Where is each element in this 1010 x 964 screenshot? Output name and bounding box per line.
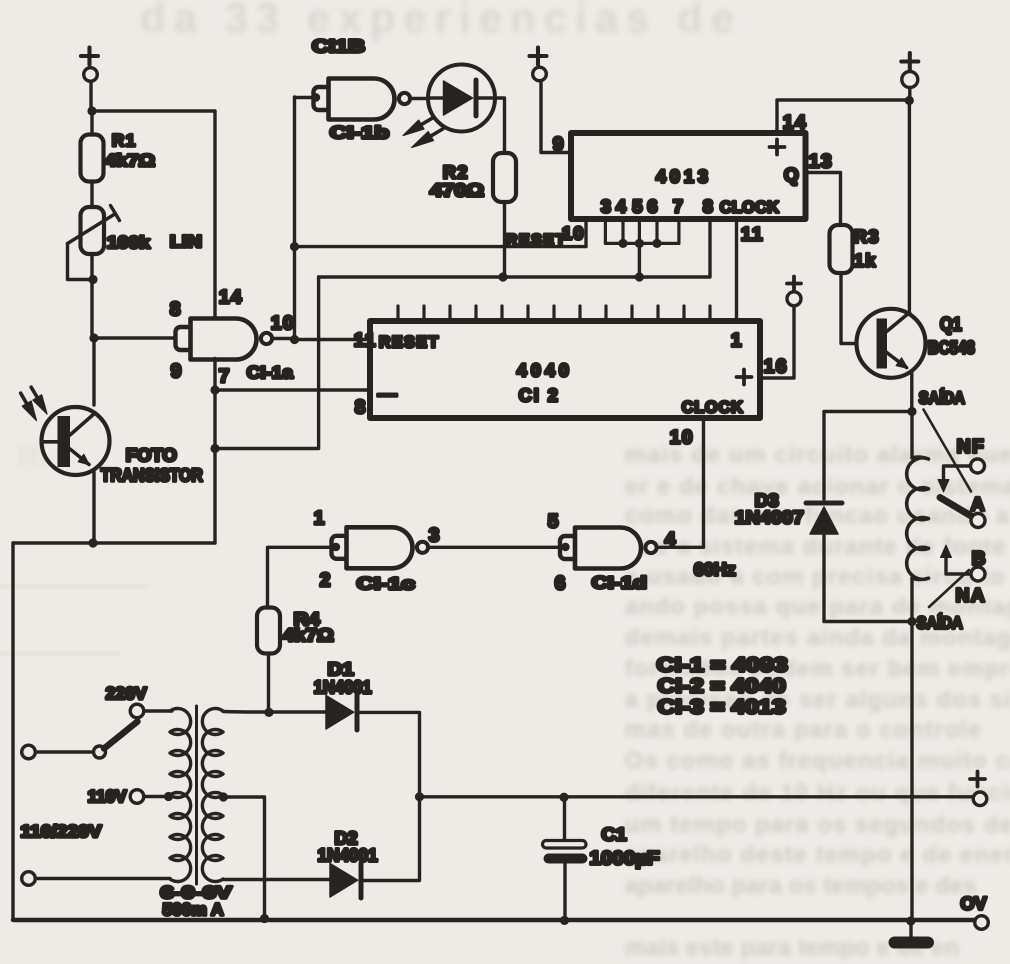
svg-text:C1: C1 [602, 824, 627, 844]
svg-text:SAÍDA: SAÍDA [919, 388, 965, 407]
relay coil K1 [910, 412, 913, 459]
terminal switch pivot [94, 746, 106, 758]
svg-text:11: 11 [354, 330, 377, 351]
node CI-1c input tie [332, 543, 340, 551]
svg-text:8: 8 [170, 299, 182, 320]
svg-text:FOTO: FOTO [126, 445, 177, 465]
mains selector switch [94, 722, 138, 759]
svg-text:CI-1c: CI-1c [357, 574, 415, 593]
svg-text:NA: NA [956, 586, 986, 607]
svg-text:1000µF: 1000µF [590, 848, 660, 869]
terminal +V 4040 pin16 [787, 292, 801, 306]
wire CI-1d output to clock line [657, 546, 704, 549]
LED light arrow 1 [403, 118, 433, 136]
node CI-1d input tie [561, 543, 569, 551]
svg-text:3: 3 [429, 525, 441, 546]
wire reset line to 4013 pin10 [295, 219, 587, 247]
svg-text:14: 14 [219, 287, 243, 308]
svg-text:60Hz: 60Hz [694, 559, 736, 579]
node I (R2 to bus) [498, 272, 507, 281]
terminal 110V terminal [130, 790, 144, 804]
diode D3 1N4007 [806, 503, 842, 534]
NAND gate U1a CI-1a (4093) [176, 319, 273, 360]
svg-text:CI-1a: CI-1a [247, 363, 294, 382]
svg-text:3: 3 [601, 196, 611, 216]
wire node E down [213, 390, 216, 444]
svg-text:100k: 100k [107, 233, 151, 252]
svg-text:1N4007: 1N4007 [735, 507, 804, 527]
svg-text:220V: 220V [106, 684, 148, 703]
wire R1 to pot [90, 182, 93, 208]
node L (R4 junction) [264, 708, 273, 717]
svg-text:BC548: BC548 [928, 337, 975, 357]
terminal +V 4013 pin9 [533, 67, 547, 81]
svg-text:13: 13 [809, 151, 833, 172]
node bus-6 [652, 239, 661, 248]
node primary tap [164, 792, 173, 801]
NA contact [941, 545, 972, 574]
node A (R1 top) [87, 106, 96, 115]
plus sign 4013 supply [530, 48, 547, 65]
node Q (relay to 0V) [906, 916, 915, 925]
NAND gate U1c CI-1c (4093) [332, 527, 429, 568]
svg-text:TRANSISTOR: TRANSISTOR [101, 465, 203, 485]
wire from +V terminal to node A [89, 81, 92, 107]
terminal +V top-left [84, 68, 98, 82]
svg-text:4013: 4013 [656, 166, 712, 186]
potentiometer P1 100k LIN [68, 206, 120, 255]
wire R3 to Q1 base [841, 273, 875, 344]
svg-text:NF: NF [957, 437, 985, 458]
wire node E to 4040 pin8 [215, 388, 370, 391]
wire fototransistor emitter down [92, 472, 95, 539]
wire node C to CI-1a inputs [94, 336, 175, 339]
plus sign top-right supply [901, 53, 918, 70]
terminal 0V output terminal [975, 916, 989, 930]
wire 4013 pin11 clock to 4040 pin1 [735, 219, 738, 321]
NAND gate U1b CI-1b (4093) [314, 79, 411, 120]
wire CI-1a output to node D [272, 337, 290, 340]
wire LED to R2 [495, 98, 505, 153]
wire 4040 pin16 to +V [760, 306, 794, 378]
wire secondary top to D1 [223, 710, 326, 714]
wire pot bottom through node B down [90, 254, 93, 334]
armature link line from SAIDA [924, 410, 972, 492]
node D (CI-1a output) [290, 335, 299, 344]
LED light arrow 2 [412, 129, 443, 148]
wire node F down to emitter rail [213, 449, 216, 544]
svg-text:10: 10 [670, 427, 694, 448]
svg-text:R3: R3 [854, 226, 880, 246]
terminal B terminal [971, 567, 985, 581]
svg-text:mas de outra para o contro: mas de outra para o controle [625, 716, 982, 743]
svg-text:5: 5 [548, 511, 560, 532]
light arrow 1 into fototransistor [21, 393, 37, 420]
svg-text:500m A: 500m A [163, 900, 224, 919]
wire mains to primary bottom [35, 877, 170, 880]
node B (pot bottom) [88, 275, 97, 284]
svg-text:470Ω: 470Ω [430, 180, 484, 200]
svg-text:R2: R2 [443, 162, 469, 182]
svg-text:11: 11 [741, 224, 764, 245]
svg-text:Os como as frequencia muito: Os como as frequencia muito ca [625, 747, 1010, 774]
node C (CI-1a input) [89, 333, 98, 342]
svg-text:—: — [378, 384, 399, 405]
wire node F up to reset bus line [215, 277, 319, 449]
svg-text:1k: 1k [854, 250, 877, 270]
terminal 220V terminal [130, 704, 144, 718]
node J (pin5 to bus) [635, 272, 644, 281]
node G (emitter rail) [88, 538, 97, 547]
wire set bus to 4013 pin8 [319, 219, 710, 277]
4013 pin stubs 3..7 with bus [605, 219, 679, 243]
node M (tap to 0V) [260, 914, 269, 923]
svg-text:Q: Q [784, 165, 800, 186]
node SAIDA bottom [907, 617, 916, 626]
svg-text:CLOCK: CLOCK [682, 399, 744, 416]
terminal NF terminal [971, 459, 985, 473]
svg-text:CI-3 = 4013: CI-3 = 4013 [658, 696, 786, 718]
wire pot wiper to bottom node [68, 244, 90, 280]
svg-text:SAÍDA: SAÍDA [917, 613, 963, 632]
wire 0V rail [13, 918, 975, 922]
svg-text:CI-1 = 4093: CI-1 = 4093 [657, 654, 788, 676]
svg-text:10: 10 [271, 313, 295, 334]
wire node D to 4040 pin11 RESET [295, 338, 371, 341]
node secondary tap [219, 792, 228, 801]
svg-text:RESET: RESET [506, 232, 567, 249]
svg-text:10: 10 [562, 223, 585, 243]
wire secondary bottom to D2 [223, 878, 330, 881]
wire pin5 stub to set bus [638, 243, 641, 277]
wire CI-1a pin7 down [213, 359, 216, 387]
svg-text:6: 6 [647, 196, 657, 216]
svg-text:9: 9 [553, 134, 565, 155]
wire Q1 emitter down to SAIDA node [910, 371, 913, 407]
wire secondary tap to 0V rail [223, 797, 264, 917]
wire 220V to primary top [144, 709, 172, 712]
wire + rail to terminal [420, 795, 974, 798]
plus inside 4013 [770, 140, 785, 155]
svg-text:1: 1 [314, 508, 326, 529]
wire emitter rail horizontal [13, 541, 215, 544]
svg-text:CI1B: CI1B [312, 36, 365, 56]
wire R4 to CI-1c inputs [268, 547, 331, 608]
svg-text:4: 4 [616, 196, 626, 216]
svg-text:8: 8 [703, 196, 713, 216]
svg-text:LIN: LIN [170, 232, 202, 251]
svg-text:R1: R1 [112, 131, 137, 150]
node O (C1 top) [559, 793, 568, 802]
node CI-1b input tie [312, 93, 320, 101]
node E (pin7 junction) [210, 385, 219, 394]
svg-text:er e de chave acionar o sistem: er e de chave acionar o sistema bem [625, 473, 1010, 500]
wire mains to switch pivot [35, 750, 93, 753]
4040 top output stubs [398, 306, 710, 321]
terminal A terminal [971, 514, 985, 528]
wire terminal to node K [908, 88, 911, 101]
resistor R2 [493, 153, 516, 202]
IC U3 4013 (CI-3) [571, 133, 806, 219]
svg-text:4k7Ω: 4k7Ω [283, 625, 334, 645]
svg-text:1N4001: 1N4001 [318, 845, 378, 865]
svg-text:1N4001: 1N4001 [314, 677, 372, 697]
resistor R1 [81, 135, 104, 182]
link line from SAIDA bottom to B [929, 570, 969, 607]
svg-text:CI 2: CI 2 [519, 385, 560, 405]
resistor R4 [257, 608, 280, 654]
transistor Q1 BC548 [857, 309, 926, 378]
svg-text:CI-1d: CI-1d [592, 573, 647, 592]
wire CI-1c output to CI-1d input [429, 546, 561, 549]
terminal mains terminal 1 [22, 745, 36, 759]
wire D1 cathode to + node [357, 712, 420, 793]
svg-text:9: 9 [171, 361, 183, 382]
svg-text:4040: 4040 [517, 360, 573, 380]
node bus-4 [618, 239, 627, 248]
svg-text:14: 14 [783, 112, 807, 133]
svg-text:110/220V: 110/220V [21, 822, 103, 841]
wire R4 down to D1 node [267, 654, 270, 709]
svg-text:Q1: Q1 [940, 314, 962, 335]
capacitor C1 1000uF [543, 797, 588, 917]
IC U2 4040 (CI-2) [370, 321, 760, 418]
svg-text:16: 16 [764, 356, 788, 377]
plus sign output [970, 772, 985, 787]
svg-text:aparelho para os tempos e de: aparelho para os tempos e des [625, 872, 977, 899]
svg-text:CI-2 = 4040: CI-2 = 4040 [658, 675, 786, 697]
terminal +V top-right [902, 72, 918, 88]
terminal + output terminal [973, 792, 987, 806]
NAND gate U1d CI-1d (4093) [560, 528, 657, 569]
wire 4013 Q pin13 to R3 [806, 173, 841, 226]
wire 4013 pin14 to +V node [777, 100, 905, 133]
wire node A to CI-1a pin14 [92, 111, 215, 319]
wire node C to fototransistor collector [92, 338, 95, 405]
diode D1 1N4001 [326, 695, 357, 730]
svg-text:um tempo para os segundos des: um tempo para os segundos deseja [625, 811, 1010, 838]
terminal mains terminal 2 [22, 872, 36, 886]
svg-text:4k7Ω: 4k7Ω [105, 151, 155, 170]
node F [210, 444, 219, 453]
node P (C1 bottom) [560, 916, 569, 925]
wire CI-1b output to LED [410, 97, 429, 100]
svg-text:110V: 110V [88, 787, 128, 806]
svg-text:5: 5 [632, 196, 642, 216]
wire R2 to reset bus [503, 202, 506, 273]
node H (reset line) [290, 242, 299, 251]
wire 110V to primary tap [144, 795, 165, 798]
wire relay bottom to 0V rail [910, 622, 913, 918]
wire 4040 clock pin10 down to 60Hz line [702, 418, 705, 547]
svg-text:CI-1b: CI-1b [330, 123, 389, 142]
svg-text:7: 7 [219, 366, 231, 387]
svg-text:aparelho deste tempo e de ene: aparelho deste tempo e de energia [625, 841, 1010, 868]
svg-text:OV: OV [961, 894, 987, 914]
plus inside 4040 [737, 370, 752, 385]
fototransistor Q2 FOTO TRANSISTOR [42, 407, 110, 475]
resistor R3 [830, 225, 853, 273]
LED D4 indicator [428, 65, 495, 132]
light arrow 2 into fototransistor [31, 387, 47, 414]
svg-text:1: 1 [731, 330, 743, 351]
svg-text:diferente de 10 Hz ou que func: diferente de 10 Hz ou que funciona [625, 779, 1010, 806]
svg-text:CLOCK: CLOCK [720, 199, 779, 216]
wire node K down to Q1 collector [908, 101, 911, 311]
svg-text:A: A [971, 495, 986, 516]
plus sign top-left supply [81, 48, 98, 65]
wire node D up to CI-1b input [293, 97, 296, 340]
svg-text:2: 2 [320, 570, 332, 591]
node N (+ rectifier node) [415, 792, 424, 801]
wire D3 to SAIDA bottom [824, 534, 908, 622]
svg-text:RESET: RESET [379, 334, 440, 351]
svg-text:B: B [972, 549, 987, 570]
wire node A to R1 [90, 111, 93, 135]
wire left side rail down [11, 543, 14, 920]
wire D2 cathode up to + node [361, 800, 420, 881]
diode D2 1N4001 [330, 863, 361, 898]
node bus-5 [635, 239, 644, 248]
transformer T1 [170, 706, 223, 884]
svg-text:da 33 experiencias de: da 33 experiencias de [140, 0, 742, 41]
svg-text:6: 6 [555, 573, 567, 594]
NF contact [938, 466, 971, 492]
svg-text:7: 7 [673, 196, 683, 216]
ground symbol [889, 921, 935, 949]
svg-text:D1: D1 [328, 659, 354, 679]
plus sign 4040 supply [787, 277, 801, 291]
wire pin9 supply wire [541, 81, 571, 153]
wire CI-1b input wire [295, 96, 317, 99]
wire SAIDA to D3 top [824, 412, 912, 500]
node K (+V node) [905, 96, 914, 105]
svg-text:8: 8 [355, 397, 367, 418]
node SAIDA top [907, 407, 916, 416]
relay armature lever to A [940, 498, 972, 517]
